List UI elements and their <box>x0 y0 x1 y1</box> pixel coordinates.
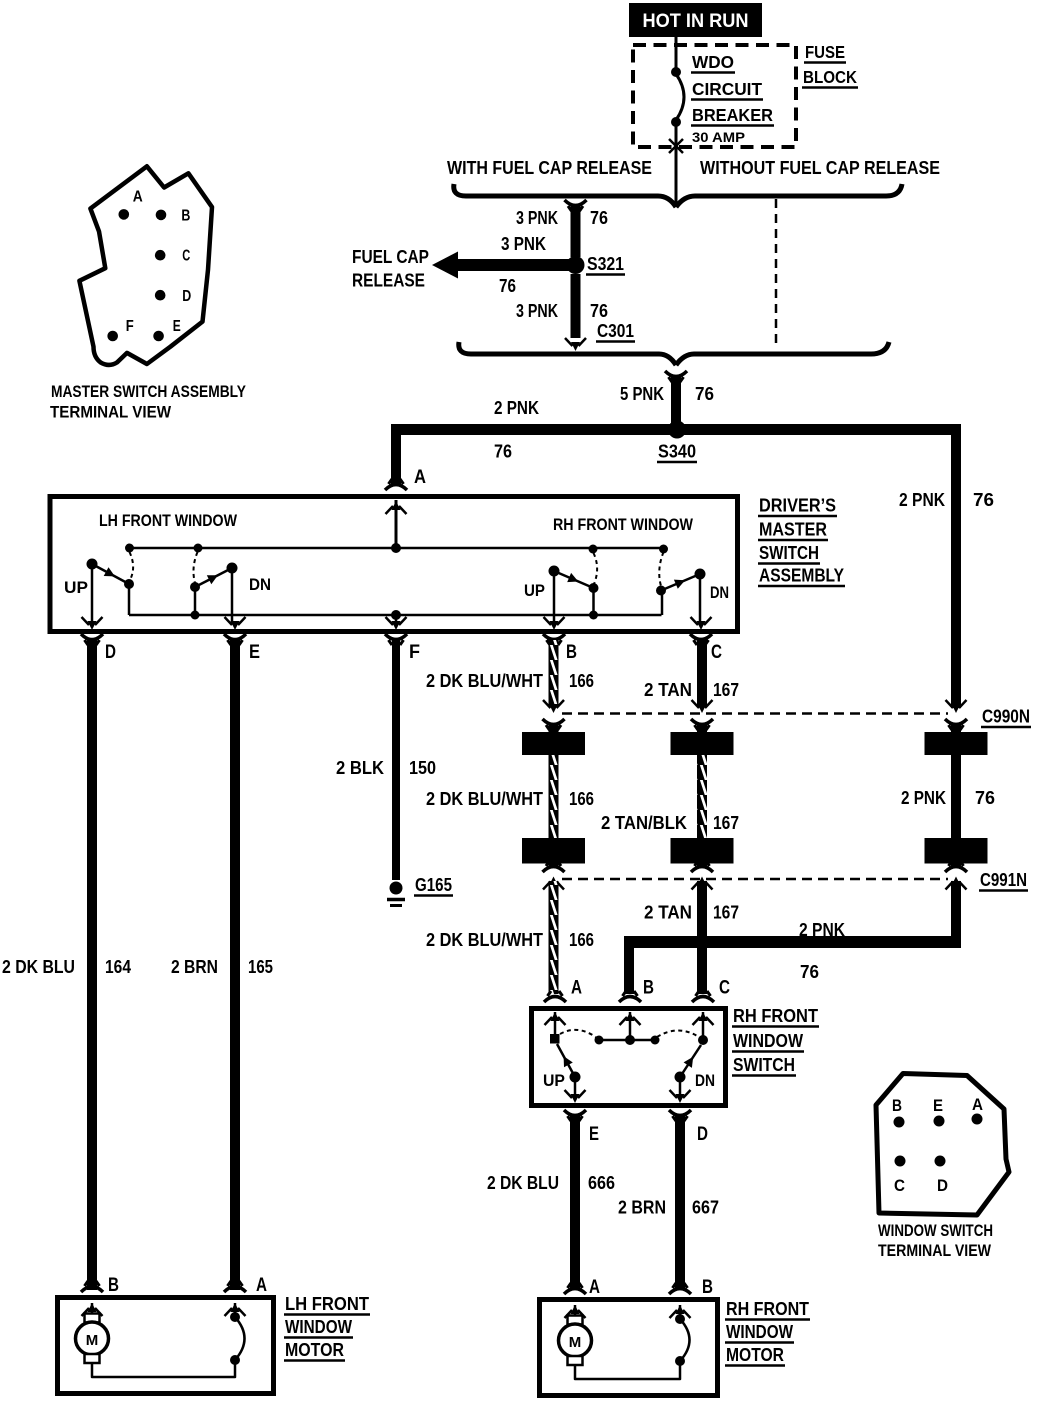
svg-text:C990N: C990N <box>982 707 1030 727</box>
svg-text:76: 76 <box>499 276 516 296</box>
svg-text:E: E <box>933 1096 943 1115</box>
wire 2 TAN 167 segment 3 <box>697 881 707 994</box>
label 2 PNK (bus left) <box>494 398 539 418</box>
terminal pin A (master view) <box>119 209 130 220</box>
label DN (RH) <box>710 583 729 602</box>
label 166 (seg2) <box>569 789 594 809</box>
RH window DN dashed contact arc <box>659 552 663 586</box>
connector arrow at C990N (TAN) <box>691 700 713 732</box>
motor M (LH) <box>76 1314 109 1364</box>
terminal pin A (window switch view) <box>972 1114 983 1125</box>
wire motor return (RH) <box>575 1361 680 1379</box>
connector terminal E of RH switch <box>564 1090 586 1121</box>
svg-text:D: D <box>105 642 116 663</box>
junction dot top bus at RH DN contact <box>659 545 668 554</box>
label 76 (right) <box>973 490 994 510</box>
connector terminal D of RH switch <box>669 1090 691 1121</box>
svg-text:76: 76 <box>494 442 512 462</box>
supply bus wire (top, inside box) <box>130 547 665 550</box>
svg-text:SWITCH: SWITCH <box>733 1055 795 1075</box>
svg-text:S340: S340 <box>658 442 696 462</box>
connector terminal D of master switch <box>81 617 103 645</box>
terminal pin E (window switch view) <box>934 1116 945 1127</box>
label B (RH motor) <box>702 1277 713 1298</box>
connector terminal A of master switch <box>385 479 407 514</box>
label 5 PNK <box>620 384 664 404</box>
label 76 (jog) <box>800 962 819 982</box>
label 2 DK BLU/WHT (seg3) <box>426 930 543 950</box>
label RH FRONT (switch) <box>732 1006 819 1027</box>
LH window DN contact dot <box>190 582 200 592</box>
label B (RH switch) <box>643 978 654 999</box>
label SWITCH <box>758 543 820 564</box>
connector terminal A of LH motor <box>224 1281 246 1316</box>
svg-text:UP: UP <box>524 581 545 600</box>
connector terminal A of RH motor <box>564 1283 586 1318</box>
svg-text:MOTOR: MOTOR <box>285 1340 344 1360</box>
junction dot top bus at A feed <box>391 543 401 553</box>
window switch connector outline <box>876 1074 1009 1216</box>
label UP (RH switch) <box>543 1071 565 1090</box>
wire 2 PNK 76 bus (horizontal) <box>391 424 961 435</box>
LH window DN switch common <box>227 563 238 574</box>
wire 2 BLK 150 (terminal F to ground) <box>392 640 400 880</box>
connector terminal B of LH motor <box>81 1281 103 1316</box>
connector terminal B of master switch <box>543 617 565 645</box>
junction dot bottom bus LH DN <box>191 611 200 620</box>
wire from breaker to bracket with arrow <box>669 139 683 203</box>
svg-text:WITH FUEL CAP RELEASE: WITH FUEL CAP RELEASE <box>447 158 652 178</box>
connector arrow at C990N (DK BLU/WHT) <box>543 700 565 732</box>
connector arrow at C991N (DK BLU/WHT) <box>543 861 565 890</box>
svg-text:167: 167 <box>713 903 739 923</box>
label 3 PNK (lower) <box>516 301 558 321</box>
svg-text:76: 76 <box>973 490 994 510</box>
label 76 (upper) <box>590 208 608 228</box>
label A (master switch terminal A) <box>414 466 426 488</box>
junction dot top bus at RH UP contact <box>589 545 598 554</box>
RH switch UP arm <box>557 1044 575 1077</box>
svg-text:C: C <box>711 642 722 663</box>
svg-text:WINDOW: WINDOW <box>285 1317 352 1337</box>
label 167 (seg3) <box>713 903 739 923</box>
label 164 <box>105 957 131 977</box>
bus dot left (RH switch) <box>595 1036 604 1045</box>
wire RH UP contact to return bus <box>592 588 595 615</box>
label RH FRONT WINDOW <box>553 515 694 534</box>
label RELEASE <box>352 271 425 291</box>
label E (window switch view) <box>933 1096 943 1115</box>
svg-text:2 DK BLU/WHT: 2 DK BLU/WHT <box>426 789 543 809</box>
svg-text:WINDOW SWITCH: WINDOW SWITCH <box>878 1221 993 1240</box>
svg-text:D: D <box>182 288 191 305</box>
upper bracket left (with fuel cap release bus) <box>454 184 676 207</box>
svg-text:2 BLK: 2 BLK <box>336 758 384 778</box>
svg-text:A: A <box>571 978 582 999</box>
label 2 DK BLU (164 wire) <box>2 957 75 977</box>
connector at bracket to 3 PNK wire <box>565 200 587 211</box>
svg-text:A: A <box>972 1095 983 1114</box>
connector bracket to 5 PNK wire <box>665 371 687 382</box>
label TERMINAL VIEW (master) <box>50 403 172 422</box>
label A (window switch view) <box>972 1095 983 1114</box>
svg-text:RH FRONT: RH FRONT <box>726 1299 809 1319</box>
dashed arc bus to C (RH switch) <box>657 1031 699 1038</box>
label WINDOW SWITCH <box>878 1221 993 1240</box>
label C990N <box>981 707 1031 728</box>
wire 2 PNK 76 segment 3 down <box>951 881 961 948</box>
label LH FRONT WINDOW <box>99 511 238 530</box>
RH window DN contact dot <box>656 586 666 596</box>
circuit breaker WDO 30 AMP <box>671 37 684 152</box>
label 76 (fuel cap branch) <box>499 276 516 296</box>
svg-text:UP: UP <box>543 1071 565 1090</box>
svg-text:5 PNK: 5 PNK <box>620 384 664 404</box>
brush arc top dot (RH) <box>675 1314 685 1324</box>
label A (master view) <box>133 189 143 206</box>
svg-text:B: B <box>643 978 654 999</box>
wire 2 PNK to RH switch terminal B <box>624 936 634 994</box>
svg-text:M: M <box>86 1332 99 1349</box>
RH window UP switch arm <box>554 571 594 588</box>
svg-text:F: F <box>126 318 134 335</box>
junction dot top bus at LH DN contact <box>194 544 203 553</box>
label 167 (seg2) <box>713 813 739 833</box>
wire RH DN contact to return bus <box>661 591 664 616</box>
svg-text:2 BRN: 2 BRN <box>618 1198 666 1218</box>
label B (LH motor) <box>108 1275 119 1296</box>
label E (RH switch) <box>589 1124 599 1145</box>
svg-text:C: C <box>894 1176 905 1195</box>
label F (master switch terminal) <box>409 642 420 663</box>
svg-text:2 PNK: 2 PNK <box>901 788 946 808</box>
wire terminal A to motor (RH) <box>574 1305 577 1316</box>
svg-text:F: F <box>409 642 420 663</box>
label C (RH switch) <box>719 978 730 999</box>
wire terminal B to motor (LH) <box>91 1303 94 1314</box>
wire 2 TAN/BLK 167 segment 2 <box>697 755 707 838</box>
svg-text:M: M <box>569 1334 582 1351</box>
driver's master switch assembly box <box>50 497 738 632</box>
label WINDOW (LH motor) <box>284 1317 353 1338</box>
contact square A (RH switch) <box>550 1034 560 1044</box>
svg-text:B: B <box>702 1277 713 1298</box>
dashed connector line C991N <box>562 878 948 881</box>
svg-text:BREAKER: BREAKER <box>692 105 773 125</box>
label DRIVER'S <box>758 496 837 517</box>
label C301 <box>596 321 635 342</box>
wire bus down to terminal A <box>391 430 401 485</box>
RH front window switch box <box>532 1009 726 1106</box>
svg-text:167: 167 <box>713 680 739 700</box>
svg-text:RH FRONT: RH FRONT <box>733 1006 818 1026</box>
svg-text:2 PNK: 2 PNK <box>899 490 945 510</box>
label WINDOW (RH motor) <box>725 1322 794 1343</box>
motor M (RH) <box>559 1316 592 1366</box>
label MOTOR (LH motor) <box>284 1340 345 1361</box>
fuse block (dashed box) <box>633 45 796 147</box>
connector terminal C of master switch <box>690 617 712 645</box>
svg-text:HOT IN RUN: HOT IN RUN <box>643 11 749 32</box>
terminal pin B (window switch view) <box>894 1117 905 1128</box>
svg-text:2 BRN: 2 BRN <box>171 957 218 977</box>
svg-text:2 DK BLU: 2 DK BLU <box>2 957 75 977</box>
wire RH UP common to terminal B <box>553 571 556 624</box>
svg-text:E: E <box>249 642 260 663</box>
svg-text:LH FRONT: LH FRONT <box>285 1294 369 1314</box>
svg-text:30 AMP: 30 AMP <box>692 129 745 145</box>
bus dot B (RH switch) <box>625 1035 635 1045</box>
svg-text:3 PNK: 3 PNK <box>516 301 558 321</box>
junction dot bottom bus at F <box>391 610 401 620</box>
svg-text:666: 666 <box>588 1173 615 1193</box>
label D (window switch view) <box>937 1176 948 1195</box>
svg-text:D: D <box>697 1124 708 1145</box>
svg-text:76: 76 <box>590 208 608 228</box>
label WITHOUT FUEL CAP RELEASE <box>700 158 940 178</box>
RH window DN switch common <box>695 569 706 580</box>
label B (master view) <box>181 207 190 224</box>
label C (window switch view) <box>894 1176 905 1195</box>
brush arc top dot (LH) <box>230 1312 240 1322</box>
brush arc bottom dot (RH) <box>675 1356 685 1366</box>
svg-text:A: A <box>414 466 426 488</box>
brush arc bottom dot (LH) <box>230 1355 240 1365</box>
terminal pin B (master view) <box>156 210 167 221</box>
RH window UP switch common <box>549 566 560 577</box>
label UP (RH) <box>524 581 545 600</box>
wire LH UP contact to return bus <box>128 584 131 615</box>
svg-text:TERMINAL VIEW: TERMINAL VIEW <box>50 403 172 422</box>
svg-text:E: E <box>173 318 181 335</box>
bus segment (RH switch) <box>599 1039 655 1042</box>
label S340 <box>657 442 697 463</box>
svg-text:B: B <box>181 207 190 224</box>
LH window UP dashed contact arc <box>130 552 134 580</box>
svg-text:2 PNK: 2 PNK <box>494 398 539 418</box>
label C (master view) <box>182 247 190 264</box>
svg-text:DN: DN <box>695 1071 715 1090</box>
connector arrow at C991N (PNK) <box>945 861 967 890</box>
svg-text:76: 76 <box>590 301 608 321</box>
label 3 PNK (fuel cap branch) <box>501 234 546 254</box>
label D (master switch terminal) <box>105 642 116 663</box>
terminal pin E (master view) <box>153 331 164 342</box>
label SWITCH (switch) <box>732 1055 796 1076</box>
dashed arc A to bus (RH switch) <box>560 1030 597 1038</box>
label 165 <box>248 957 273 977</box>
splice S340 <box>668 421 686 439</box>
connector block C991N (TAN) <box>671 838 734 864</box>
wire terminal B to bus (RH switch) <box>629 1012 632 1040</box>
wire 3 PNK 76 upper segment <box>571 204 581 257</box>
wire LH DN common to terminal E <box>231 568 234 624</box>
svg-text:C: C <box>719 978 730 999</box>
wire 5 PNK 76 <box>671 375 681 430</box>
label 2 TAN/BLK <box>601 813 687 833</box>
svg-text:CIRCUIT: CIRCUIT <box>692 79 762 99</box>
wire terminal C to contact (RH switch) <box>702 1012 705 1040</box>
lower bracket left <box>459 342 676 365</box>
label A (RH switch) <box>571 978 582 999</box>
svg-text:E: E <box>589 1124 599 1145</box>
junction dot bottom bus RH UP <box>589 611 598 620</box>
wire terminal A to brush arc (LH) <box>234 1303 237 1314</box>
label FUEL CAP <box>352 247 429 267</box>
LH window UP contact dot <box>124 579 134 589</box>
label 2 BLK <box>336 758 384 778</box>
label 3 PNK (upper) <box>516 208 558 228</box>
label 167 (seg1) <box>713 680 739 700</box>
wire motor return (LH) <box>92 1360 235 1377</box>
label C (master switch terminal) <box>711 642 722 663</box>
wire 2 DK BLU/WHT 166 segment 3 <box>549 881 559 994</box>
svg-text:WINDOW: WINDOW <box>726 1322 793 1342</box>
svg-text:3 PNK: 3 PNK <box>516 208 558 228</box>
svg-text:WITHOUT FUEL CAP RELEASE: WITHOUT FUEL CAP RELEASE <box>700 158 940 178</box>
label C991N <box>979 870 1028 891</box>
svg-text:166: 166 <box>569 789 594 809</box>
wire terminal A to supply bus (inside box) <box>395 500 398 548</box>
wire UP common to terminal E <box>574 1077 577 1100</box>
label 76 (5 PNK) <box>695 384 714 404</box>
svg-text:2 PNK: 2 PNK <box>799 920 845 940</box>
contact dot C (RH switch) <box>698 1035 708 1045</box>
svg-text:FUEL CAP: FUEL CAP <box>352 247 429 267</box>
label 76 (lower) <box>590 301 608 321</box>
label 2 PNK (between connectors) <box>901 788 946 808</box>
terminal pin C (master view) <box>155 250 166 261</box>
upper bracket right (without fuel cap release bus) <box>676 184 902 207</box>
svg-text:WDO: WDO <box>692 52 734 72</box>
svg-text:165: 165 <box>248 957 273 977</box>
splice S321 <box>567 256 585 274</box>
svg-text:2 DK BLU/WHT: 2 DK BLU/WHT <box>426 930 543 950</box>
terminal pin C (window switch view) <box>895 1156 906 1167</box>
connector terminal A of RH switch <box>544 991 566 1025</box>
label 2 DK BLU/WHT (seg2) <box>426 789 543 809</box>
wire DN common to terminal D <box>679 1077 682 1100</box>
svg-text:C991N: C991N <box>980 870 1027 890</box>
svg-text:FUSE: FUSE <box>805 42 845 62</box>
RH front window motor box <box>540 1300 718 1396</box>
RH window DN switch arm <box>661 574 700 591</box>
label D (RH switch) <box>697 1124 708 1145</box>
label 2 PNK (right) <box>899 490 945 510</box>
label DN (LH) <box>249 575 271 594</box>
svg-text:C301: C301 <box>597 321 634 341</box>
brush arc (LH) <box>235 1317 245 1360</box>
label 666 <box>588 1173 615 1193</box>
connector terminal E of master switch <box>224 617 246 645</box>
svg-text:LH FRONT WINDOW: LH FRONT WINDOW <box>99 511 238 530</box>
svg-text:166: 166 <box>569 930 594 950</box>
svg-text:D: D <box>937 1176 948 1195</box>
RH switch DN common dot <box>675 1072 686 1083</box>
label 2 DK BLU/WHT (seg1) <box>426 671 543 691</box>
RH switch DN arm <box>680 1045 701 1077</box>
svg-text:C: C <box>182 247 190 264</box>
RH window UP contact dot <box>589 583 599 593</box>
label WINDOW (switch) <box>732 1031 804 1052</box>
label G165 <box>414 875 453 896</box>
label S321 <box>586 254 625 275</box>
label WITH FUEL CAP RELEASE <box>447 158 652 178</box>
power source label HOT IN RUN <box>629 3 762 37</box>
label 2 BRN (165 wire) <box>171 957 218 977</box>
label ASSEMBLY <box>758 566 845 587</box>
svg-text:SWITCH: SWITCH <box>759 543 819 563</box>
svg-text:A: A <box>589 1277 600 1298</box>
svg-text:B: B <box>108 1275 119 1296</box>
LH window UP switch arm <box>92 564 129 584</box>
label B (master switch terminal) <box>566 642 577 663</box>
wire 2 PNK 76 segment 2 <box>951 755 961 838</box>
label DN (RH switch) <box>695 1071 715 1090</box>
connector block C990N (DK BLU/WHT) <box>522 732 585 755</box>
label 76 (bus left) <box>494 442 512 462</box>
svg-text:76: 76 <box>975 788 995 808</box>
svg-text:667: 667 <box>692 1198 719 1218</box>
svg-text:167: 167 <box>713 813 739 833</box>
LH window UP switch common <box>87 559 98 570</box>
brush arc (RH) <box>680 1319 690 1361</box>
label TERMINAL VIEW (window switch) <box>878 1241 992 1260</box>
wire 2 PNK 76 horizontal jog <box>624 936 961 948</box>
svg-text:2 TAN: 2 TAN <box>644 903 692 923</box>
label MOTOR (RH motor) <box>725 1345 785 1366</box>
return bus wire (bottom, inside box) <box>129 614 662 617</box>
label 2 TAN (seg1) <box>644 680 692 700</box>
svg-text:A: A <box>133 189 143 206</box>
terminal pin D (master view) <box>155 290 166 301</box>
connector arrow at C990N (PNK) <box>945 700 967 732</box>
label MASTER SWITCH ASSEMBLY <box>51 382 247 401</box>
label 2 PNK (jog) <box>799 920 845 940</box>
label 166 (seg1) <box>569 671 594 691</box>
label A (LH motor) <box>256 1275 267 1296</box>
label 76 (between connectors) <box>975 788 995 808</box>
label LH FRONT (motor) <box>284 1294 370 1315</box>
terminal pin F (master view) <box>107 331 118 342</box>
svg-text:76: 76 <box>695 384 714 404</box>
label 2 TAN (seg3) <box>644 903 692 923</box>
wire 2 PNK 76 right drop <box>951 430 961 709</box>
wire 2 DK BLU 164 (terminal D to LH motor) <box>87 640 97 1290</box>
connector block C990N (TAN) <box>671 732 734 755</box>
wire return bus to terminal F <box>395 615 398 624</box>
wire 2 DK BLU 666 <box>570 1116 580 1290</box>
master switch assembly connector outline <box>79 166 212 365</box>
connector terminal F of master switch <box>385 617 407 645</box>
label F (master view) <box>126 318 134 335</box>
label 2 DK BLU (666) <box>487 1173 559 1193</box>
RH switch UP common dot <box>570 1072 581 1083</box>
connector block C990N (PNK) <box>925 732 988 755</box>
svg-text:UP: UP <box>64 578 88 597</box>
svg-text:DN: DN <box>710 583 729 602</box>
wire 2 DK BLU/WHT 166 segment 2 <box>549 755 559 838</box>
svg-text:MASTER SWITCH ASSEMBLY: MASTER SWITCH ASSEMBLY <box>51 382 247 401</box>
LH front window motor box <box>58 1298 274 1394</box>
svg-text:RH FRONT WINDOW: RH FRONT WINDOW <box>553 515 694 534</box>
svg-text:B: B <box>892 1096 902 1115</box>
wire LH UP common to terminal D <box>91 564 94 624</box>
svg-text:G165: G165 <box>415 875 452 895</box>
svg-text:S321: S321 <box>587 254 624 274</box>
LH window DN dashed contact arc <box>193 552 197 583</box>
terminal pin D (window switch view) <box>935 1156 946 1167</box>
